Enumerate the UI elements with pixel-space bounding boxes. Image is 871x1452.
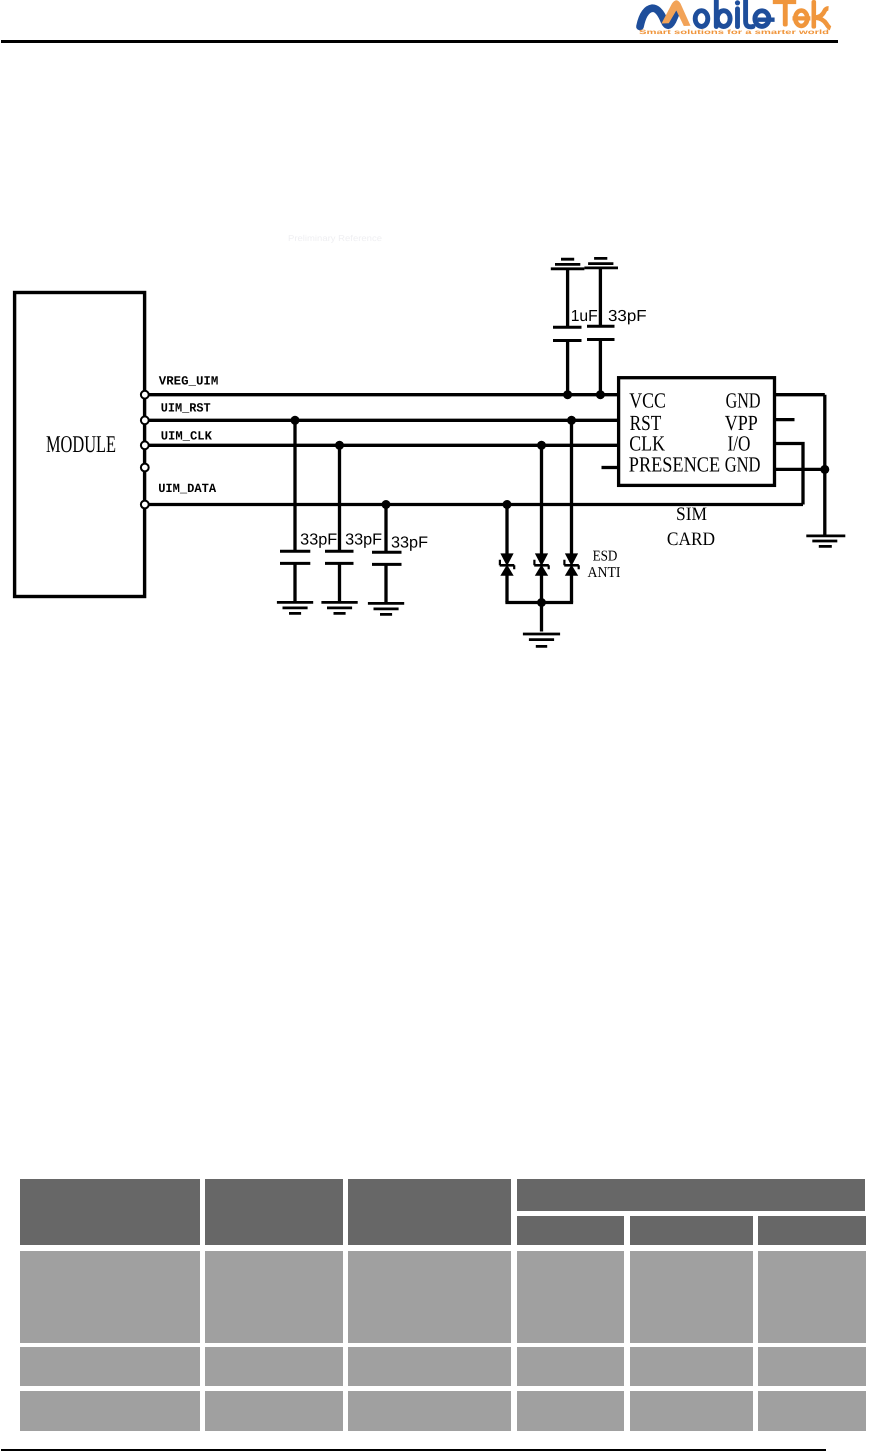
diode D2 symbol xyxy=(534,554,549,575)
capacitor C5 plates xyxy=(372,552,402,564)
pin UIM_RST xyxy=(141,416,149,424)
capacitor C1 1uF wires xyxy=(566,270,569,396)
node D2/CLK xyxy=(537,441,546,450)
diode D2 wire xyxy=(540,445,543,631)
module pins open circles xyxy=(141,391,149,509)
node C5/DATA xyxy=(382,500,391,509)
ground cap C4 xyxy=(321,602,357,613)
pin NC xyxy=(141,464,149,472)
logo text Tek xyxy=(773,0,831,29)
ground SIM right xyxy=(806,536,845,547)
capacitor C2 plates xyxy=(587,326,615,339)
logo blue wave M xyxy=(640,8,676,26)
ground cap C3 xyxy=(277,602,313,613)
node GND right xyxy=(820,465,829,474)
logo MobileTek xyxy=(634,0,836,38)
capacitor C1 plates xyxy=(553,327,582,340)
wire VPP stub xyxy=(776,418,795,421)
sim card box U-SIMCARD xyxy=(619,378,775,486)
logo orange peak xyxy=(662,0,691,26)
wire UIM_CLK xyxy=(148,444,618,447)
capacitor C4 33pF wires xyxy=(338,445,341,603)
wire GND vertical xyxy=(823,395,826,535)
ground ESD xyxy=(523,634,560,646)
wire PRESENCE stub xyxy=(602,466,618,469)
node C3/RST xyxy=(291,416,300,425)
bottom rule xyxy=(1,1449,826,1451)
logo text obile xyxy=(695,0,774,27)
ground cap C5 xyxy=(368,603,404,614)
power rail inverted ground right xyxy=(584,258,618,268)
module box U-MODULE xyxy=(15,293,145,597)
wire ESD bus xyxy=(505,601,573,604)
capacitor C5 33pF wires xyxy=(384,505,387,605)
wire GND bottom xyxy=(776,468,825,471)
node C4/CLK xyxy=(335,441,344,450)
wire UIM_RST xyxy=(148,419,618,422)
pin UIM_DATA xyxy=(141,501,149,509)
diode D1 symbol xyxy=(500,554,515,575)
capacitor C2 33pF wires xyxy=(599,269,602,396)
node C2/VREG xyxy=(596,390,605,399)
diode D3 symbol xyxy=(564,554,579,575)
pin UIM_CLK xyxy=(141,441,149,449)
diode D1 wire xyxy=(505,505,508,603)
capacitor C3 33pF wires xyxy=(293,420,296,603)
node C1/VREG xyxy=(563,390,572,399)
pin VREG_UIM xyxy=(141,391,149,399)
junction dots xyxy=(291,390,830,607)
node D1/DATA xyxy=(503,500,512,509)
wire UIM_DATA xyxy=(148,503,804,506)
node ESD bus xyxy=(537,598,546,607)
diode D3 wire xyxy=(570,420,573,602)
wire GND top xyxy=(776,393,825,396)
top rule xyxy=(1,40,838,43)
capacitor C3 plates xyxy=(280,551,310,563)
capacitor C4 plates xyxy=(325,551,354,563)
node D3/RST xyxy=(567,416,576,425)
power rail inverted ground left xyxy=(551,259,585,269)
wire I/O xyxy=(776,444,803,505)
wire VREG_UIM xyxy=(148,393,618,396)
